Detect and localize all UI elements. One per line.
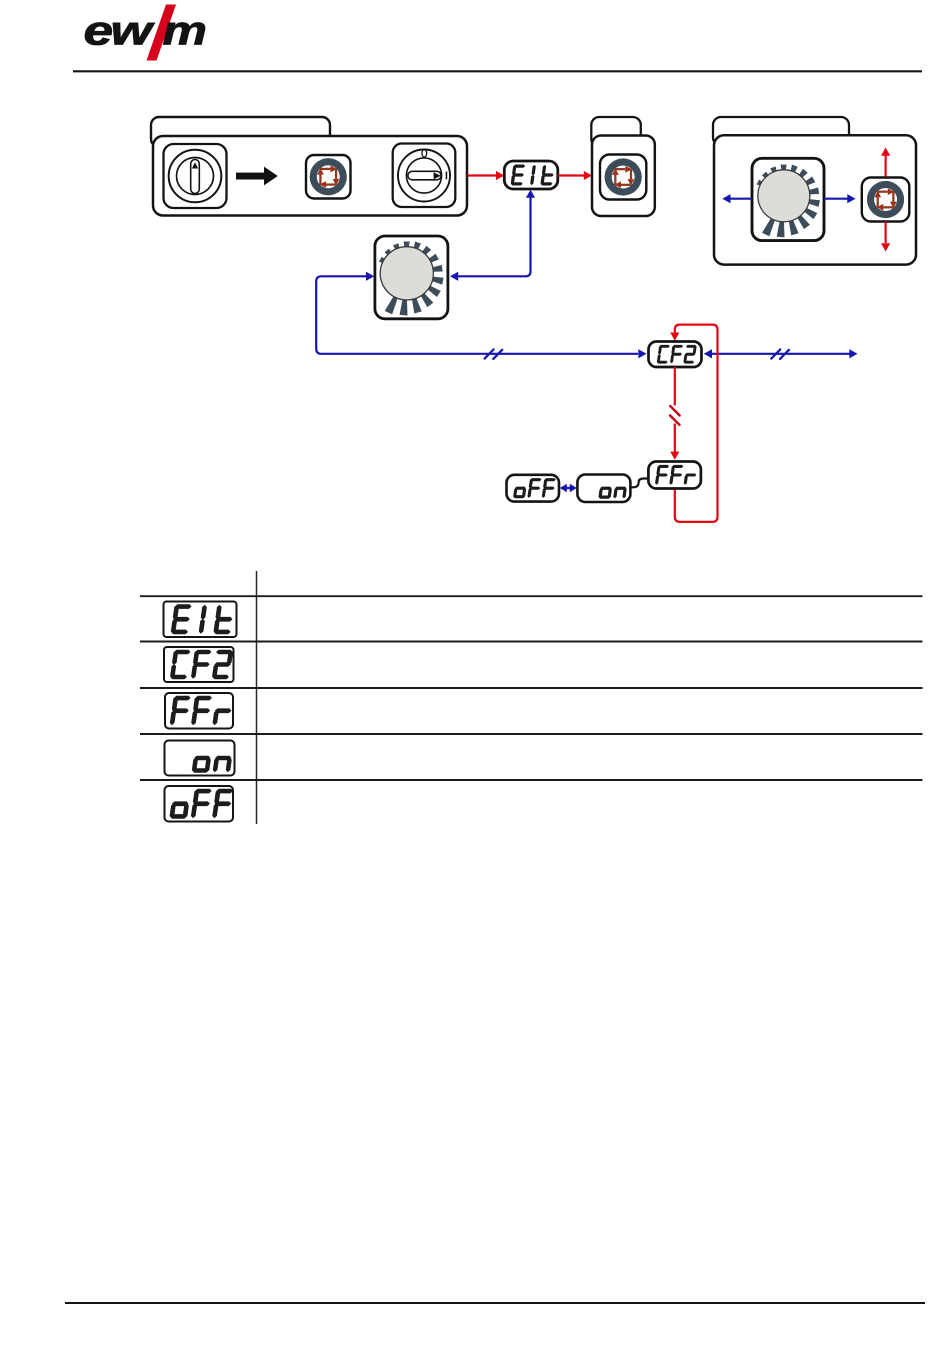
table display FFr — [165, 693, 234, 729]
panel tab 2 — [591, 117, 641, 147]
table row lines — [140, 595, 923, 597]
display oFF — [507, 475, 560, 502]
table display Elt — [164, 602, 237, 638]
red loop CF2/FFr — [670, 325, 717, 522]
red arrow Elt to button — [558, 171, 592, 180]
knob K1 (diagram) — [375, 236, 448, 319]
blue wire Elt to knob — [450, 190, 535, 281]
panel tab 3 — [713, 117, 849, 146]
blue break marks right — [771, 350, 789, 359]
panel main 2 — [592, 136, 655, 217]
svg-text:m: m — [163, 8, 207, 54]
blue arrow knob right — [824, 194, 856, 203]
panel main 1 — [153, 136, 467, 216]
cycle button B2 — [600, 155, 646, 200]
red break marks — [670, 406, 680, 425]
table display oFF — [165, 786, 234, 822]
header rule — [73, 70, 922, 72]
footer rule — [65, 1302, 925, 1304]
display CF2 — [649, 342, 702, 368]
display on — [577, 475, 630, 503]
red arrow up — [881, 148, 890, 177]
black hook on-FFr — [630, 479, 648, 488]
knob K2 — [752, 158, 824, 240]
cycle button B1 — [306, 155, 351, 199]
blue double arrow on/oFF — [560, 484, 577, 493]
red arrow down — [881, 222, 890, 252]
panel main 3 — [714, 135, 916, 264]
black arrow — [236, 167, 278, 186]
ewm logo red slash — [147, 5, 177, 61]
display Elt (diagram) — [504, 161, 558, 189]
blue wire knob to CF2 — [316, 272, 646, 359]
blue break marks left — [485, 350, 503, 359]
table display CF2 — [164, 647, 234, 682]
power switch S2 — [393, 144, 456, 208]
blue arrow knob left — [722, 194, 752, 203]
panel tab 1 — [151, 117, 330, 147]
red wire CF2 to FFr — [670, 367, 679, 460]
display FFr — [648, 462, 701, 489]
cycle button B3 — [862, 178, 910, 222]
table display on — [165, 741, 235, 776]
svg-text:ew: ew — [84, 8, 156, 54]
table divider vertical — [256, 571, 258, 824]
red arrow panel to Elt — [468, 171, 505, 180]
blue wire CF2 to right — [704, 349, 858, 358]
key switch S1 — [164, 144, 227, 208]
